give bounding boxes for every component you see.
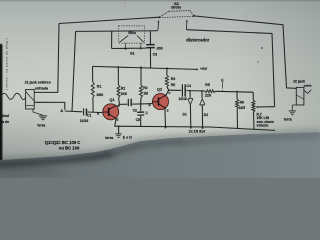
svg-text:minal: minal: [0, 114, 9, 118]
svg-text:22K: 22K: [205, 94, 212, 98]
svg-text:C2: C2: [133, 108, 137, 112]
svg-text:( deste : na ponta do plug ): ( deste : na ponta do plug ): [5, 38, 9, 90]
svg-text:.003: .003: [156, 47, 163, 51]
svg-text:2x 1N 914: 2x 1N 914: [189, 129, 205, 133]
svg-text:distorcedor: distorcedor: [186, 38, 209, 43]
svg-text:+9V: +9V: [200, 66, 208, 71]
svg-text:ria de: ria de: [0, 120, 9, 124]
svg-text:E: E: [117, 118, 119, 122]
svg-text:terra: terra: [105, 136, 114, 140]
svg-text:R4: R4: [171, 77, 176, 81]
svg-text:ou BC 109: ou BC 109: [59, 145, 80, 150]
svg-text:direto: direto: [171, 6, 182, 10]
svg-text:3M3: 3M3: [96, 93, 103, 97]
svg-text:1K5: 1K5: [239, 106, 245, 110]
svg-text:D2: D2: [204, 113, 208, 117]
svg-text:2K6: 2K6: [121, 92, 127, 96]
svg-text:R5: R5: [205, 83, 210, 87]
svg-text:R2: R2: [121, 87, 125, 91]
svg-text:J1 jack estéreo: J1 jack estéreo: [24, 81, 51, 85]
svg-text:E e D: E e D: [123, 136, 132, 140]
svg-text:C5: C5: [136, 118, 140, 122]
svg-text:E: E: [167, 109, 169, 113]
svg-text:10/16: 10/16: [80, 119, 89, 123]
svg-text:A: A: [60, 108, 63, 113]
svg-text:R3: R3: [143, 86, 147, 90]
svg-text:5K: 5K: [171, 83, 176, 87]
svg-text:Q1=Q2= BC 109 C: Q1=Q2= BC 109 C: [45, 140, 81, 145]
svg-text:saída: saída: [304, 84, 312, 88]
svg-text:10/16: 10/16: [179, 97, 187, 101]
svg-text:.1: .1: [145, 111, 148, 115]
svg-text:R1: R1: [97, 84, 102, 88]
svg-text:C4: C4: [187, 84, 192, 88]
svg-text:S1: S1: [130, 51, 135, 55]
svg-text:filtro: filtro: [128, 31, 136, 35]
svg-text:D1: D1: [183, 113, 187, 117]
svg-text:terra: terra: [37, 123, 45, 127]
svg-text:C3: C3: [153, 52, 158, 56]
svg-text:Q1: Q1: [110, 98, 115, 102]
svg-text:R6: R6: [240, 100, 244, 104]
svg-text:volume: volume: [257, 124, 269, 128]
svg-text:C1: C1: [87, 114, 91, 118]
svg-text:entrada: entrada: [35, 86, 49, 90]
svg-text:1M: 1M: [143, 91, 148, 95]
svg-text:Q2: Q2: [157, 87, 162, 91]
svg-text:terra: terra: [284, 118, 292, 122]
